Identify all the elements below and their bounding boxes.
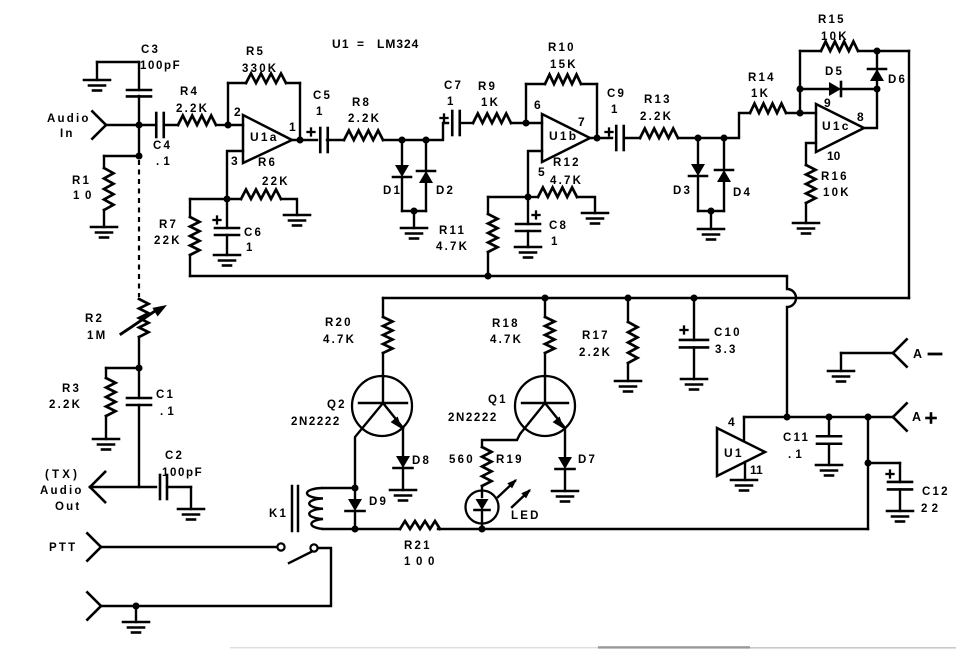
diode D6 — [876, 51, 878, 69]
svg-text:C1: C1 — [156, 389, 175, 401]
ground (C2) — [178, 508, 204, 511]
svg-text:22K: 22K — [154, 235, 182, 247]
svg-text:U1: U1 — [332, 37, 350, 51]
LED arrows — [498, 481, 515, 497]
ground (PTT return) — [123, 621, 149, 624]
svg-text:. 1: . 1 — [156, 156, 170, 168]
svg-text:R2: R2 — [85, 313, 104, 325]
svg-text:A: A — [913, 347, 922, 361]
svg-text:R15: R15 — [818, 14, 846, 26]
node D9 top — [352, 485, 359, 492]
node pin3/R6/R7/C6 junction — [224, 196, 231, 203]
svg-text:C6: C6 — [244, 227, 263, 239]
capacitor C7 — [441, 117, 448, 119]
svg-text:8: 8 — [857, 110, 864, 124]
ground (C12) — [887, 510, 913, 513]
switch lever — [289, 552, 311, 563]
svg-text:C10: C10 — [714, 327, 742, 339]
capacitor C4 — [155, 113, 158, 137]
wire reference bus upper — [190, 275, 787, 277]
resistor R9 — [473, 114, 511, 124]
wire A+ rail — [744, 416, 893, 418]
capacitor C11 — [828, 417, 830, 436]
svg-text:D8: D8 — [412, 455, 431, 467]
svg-text:330K: 330K — [242, 63, 278, 75]
resistor R11 — [488, 196, 528, 198]
svg-text:C2: C2 — [165, 450, 184, 462]
svg-text:R14: R14 — [748, 72, 776, 84]
svg-text:C12: C12 — [922, 486, 950, 498]
svg-text:100pF: 100pF — [140, 60, 181, 72]
node R11 on upper bus — [485, 273, 492, 280]
svg-text:D1: D1 — [383, 185, 402, 197]
svg-text:. 1: . 1 — [788, 449, 802, 461]
svg-text:1: 1 — [316, 106, 325, 118]
node pin5/R11/R12/C8 junction — [525, 194, 532, 201]
svg-text:LED: LED — [511, 510, 541, 522]
svg-text:K1: K1 — [269, 508, 288, 520]
resistor R13 — [640, 129, 678, 139]
dashed gain-control line — [138, 160, 140, 297]
node U1a output — [297, 137, 304, 144]
svg-text:1K: 1K — [751, 88, 770, 100]
wire audio out — [90, 486, 156, 488]
svg-text:6: 6 — [534, 98, 541, 112]
svg-text:PTT: PTT — [49, 542, 77, 554]
svg-text:5: 5 — [538, 165, 545, 179]
node D3 top — [695, 135, 702, 142]
connector Audio In — [92, 111, 106, 125]
svg-text:C4: C4 — [153, 140, 172, 152]
resistor R4 — [178, 116, 216, 126]
wire A- to ground — [841, 352, 893, 354]
capacitor C2 — [159, 475, 162, 499]
capacitor C3 — [138, 62, 140, 90]
wire D1-D2 bottoms — [402, 210, 426, 212]
wire C12 branch — [867, 417, 869, 529]
diode D4 — [723, 138, 725, 170]
svg-text:C3: C3 — [141, 44, 160, 56]
svg-text:. 1: . 1 — [160, 406, 174, 418]
svg-text:2.2K: 2.2K — [579, 347, 612, 359]
ground (D7) — [552, 490, 578, 493]
svg-text:R17: R17 — [582, 330, 610, 342]
ground (C11) — [816, 464, 842, 467]
resistor R15 feedback — [800, 50, 821, 52]
capacitor C12 — [887, 473, 894, 475]
svg-text:1 0 0: 1 0 0 — [404, 556, 436, 568]
svg-text:2: 2 — [234, 105, 241, 119]
svg-text:R12: R12 — [553, 157, 581, 169]
ground (R17) — [615, 380, 641, 383]
node D1/D2 ground junction — [411, 208, 418, 215]
connector TX Audio Out — [90, 472, 105, 487]
svg-text:10K: 10K — [821, 31, 849, 43]
wire to C7 — [426, 123, 448, 140]
wire top to right drop — [877, 50, 909, 52]
node C10 top — [691, 295, 698, 302]
connector ground return — [87, 592, 101, 606]
wire PTT to switch — [101, 546, 277, 548]
capacitor C6 — [214, 219, 221, 221]
wire output bus bottom — [355, 528, 400, 530]
svg-text:R13: R13 — [644, 94, 672, 106]
resistor R21 — [400, 521, 440, 529]
ground (A-) — [828, 370, 854, 373]
svg-text:R6: R6 — [258, 157, 277, 169]
wire switch return — [101, 548, 331, 606]
svg-text:7: 7 — [578, 115, 585, 129]
transistor Q1 — [515, 376, 575, 436]
svg-text:2.2K: 2.2K — [176, 103, 209, 115]
svg-text:R18: R18 — [492, 318, 520, 330]
svg-text:1K: 1K — [481, 97, 500, 109]
svg-text:R20: R20 — [325, 317, 353, 329]
resistor R16 — [806, 165, 816, 203]
power symbol U1 pins 4 and 11 — [743, 417, 745, 441]
svg-text:D7: D7 — [578, 454, 597, 466]
wire D3-D4 bottoms — [698, 210, 724, 212]
diode D7 — [558, 457, 572, 469]
svg-text:D9: D9 — [369, 496, 388, 508]
resistor R1 — [104, 155, 139, 157]
capacitor C8 — [533, 214, 540, 216]
svg-text:2.2K: 2.2K — [348, 113, 381, 125]
svg-text:=: = — [357, 37, 364, 51]
op-amp U1c — [816, 104, 864, 152]
capacitor C9 — [606, 131, 613, 133]
LED indicator — [466, 491, 499, 524]
resistor R7 — [190, 198, 227, 200]
wire right vertical drop to control bus — [908, 51, 910, 298]
resistor R8 — [344, 131, 383, 141]
wire to R14 — [724, 113, 750, 138]
transistor Q2 — [352, 376, 412, 436]
svg-text:C5: C5 — [313, 90, 332, 102]
svg-text:10K: 10K — [823, 187, 851, 199]
svg-text:4.7K: 4.7K — [490, 334, 523, 346]
svg-text:C8: C8 — [549, 220, 568, 232]
svg-text:D5: D5 — [825, 66, 844, 78]
resistor R14 — [750, 104, 786, 114]
svg-text:Audio: Audio — [47, 113, 91, 125]
diode D5 — [800, 88, 829, 90]
svg-text:R16: R16 — [821, 171, 849, 183]
ground (C10) — [681, 378, 707, 381]
svg-text:U1a: U1a — [250, 130, 279, 144]
svg-text:1 0: 1 0 — [73, 190, 93, 202]
resistor R20 — [383, 317, 393, 353]
svg-text:R7: R7 — [159, 219, 178, 231]
ground (R6) — [284, 214, 310, 217]
svg-text:2N2222: 2N2222 — [448, 412, 498, 424]
ground (R1) — [91, 226, 117, 229]
node R15/D6 top junction — [874, 48, 881, 55]
wire control bus — [383, 297, 909, 299]
page edge artifact — [230, 647, 600, 648]
svg-text:C11: C11 — [783, 432, 810, 444]
capacitor C10 — [681, 329, 688, 331]
node R18 top — [542, 295, 549, 302]
capacitor C5 — [308, 131, 315, 133]
wire pin5 — [528, 151, 542, 197]
diode D9 — [354, 488, 356, 499]
connector A+ — [893, 403, 907, 417]
node D4 top — [721, 135, 728, 142]
svg-text:22K: 22K — [262, 176, 290, 188]
wire R4 to pin2 — [216, 124, 228, 126]
svg-text:2N2222: 2N2222 — [291, 416, 341, 428]
svg-text:4: 4 — [728, 415, 735, 429]
svg-text:Out: Out — [55, 501, 81, 513]
svg-text:U1: U1 — [724, 446, 744, 460]
svg-text:1: 1 — [551, 236, 560, 248]
svg-text:R21: R21 — [404, 540, 432, 552]
diode D1 — [401, 140, 403, 165]
svg-text:A: A — [912, 410, 921, 424]
svg-text:10: 10 — [827, 149, 841, 163]
node R3/C1 junction — [136, 365, 143, 372]
svg-text:3: 3 — [231, 154, 238, 168]
svg-text:1: 1 — [289, 120, 296, 134]
node C12 branch — [865, 414, 872, 421]
wire U1c output — [864, 89, 877, 128]
wire upper bus drop with hop over control bus — [787, 276, 796, 417]
svg-text:11: 11 — [750, 463, 763, 477]
diode D8 — [396, 456, 410, 468]
diode D3 — [697, 138, 699, 164]
resistor R3 — [106, 367, 139, 369]
svg-text:15K: 15K — [550, 59, 578, 71]
resistor R17 — [627, 298, 629, 322]
svg-text:R3: R3 — [62, 383, 81, 395]
wire pin3 — [227, 151, 243, 199]
svg-text:C9: C9 — [607, 88, 626, 100]
ground (U1 pin11) — [731, 479, 757, 482]
wire left feedback riser — [799, 51, 801, 113]
ground (C8) — [515, 246, 541, 249]
svg-text:1: 1 — [611, 104, 620, 116]
svg-text:560: 560 — [449, 454, 475, 466]
wire bus to C12 riser — [438, 528, 868, 530]
node C11 top — [826, 414, 833, 421]
wire Audio In to node — [106, 124, 139, 126]
node R17 top — [625, 295, 632, 302]
svg-text:U1b: U1b — [549, 129, 578, 143]
svg-text:1: 1 — [447, 96, 456, 108]
resistor R5 feedback — [227, 83, 229, 125]
svg-text:R19: R19 — [496, 454, 524, 466]
svg-text:D6: D6 — [888, 74, 907, 86]
relay contact circle 1 — [277, 543, 284, 550]
node D2 top — [423, 137, 430, 144]
svg-text:2.2K: 2.2K — [49, 399, 82, 411]
node R1 junction — [136, 153, 143, 160]
svg-text:R1: R1 — [72, 175, 91, 187]
resistor R19 — [482, 447, 492, 486]
svg-text:4.7K: 4.7K — [550, 175, 583, 187]
svg-text:U1c: U1c — [822, 119, 851, 133]
node D5 left — [797, 86, 804, 93]
op-amp U1a — [243, 115, 292, 163]
svg-text:LM324: LM324 — [377, 37, 419, 51]
svg-text:In: In — [60, 128, 75, 140]
resistor R18 — [544, 298, 546, 317]
node pin2 junction — [225, 122, 232, 129]
svg-text:Audio: Audio — [40, 485, 84, 497]
svg-text:R11: R11 — [439, 225, 466, 237]
resistor R12 — [528, 196, 538, 198]
svg-text:3.3: 3.3 — [715, 344, 738, 356]
node D3/D4 ground junction — [708, 208, 715, 215]
svg-text:100pF: 100pF — [162, 467, 203, 479]
node D5/D6 right junction — [874, 86, 881, 93]
wire pin10 — [806, 143, 816, 165]
node U1b output — [594, 135, 601, 142]
svg-text:R4: R4 — [180, 86, 199, 98]
svg-text:1M: 1M — [87, 330, 107, 342]
wire ground-to-C3 top — [97, 61, 139, 63]
diode D2 — [425, 140, 427, 171]
node LED on output bus — [479, 526, 486, 533]
node hop-wire on A+ rail — [784, 414, 791, 421]
svg-text:R9: R9 — [478, 81, 497, 93]
svg-text:D3: D3 — [673, 185, 692, 197]
connector PTT — [87, 533, 101, 547]
svg-text:2.2K: 2.2K — [640, 111, 673, 123]
ground (C3 input ground) — [84, 79, 110, 82]
node ground-return junction — [133, 603, 140, 610]
ground (D1 D2) — [401, 227, 427, 230]
ground (R16) — [793, 222, 819, 225]
node pin9 junction — [797, 110, 804, 117]
ground (D3 D4) — [698, 228, 724, 231]
node input junction — [136, 122, 143, 129]
node D9 bottom — [352, 526, 359, 533]
ground (C6) — [214, 254, 240, 257]
op-amp U1b — [542, 114, 590, 162]
svg-text:4.7K: 4.7K — [436, 241, 469, 253]
svg-text:4.7K: 4.7K — [323, 334, 356, 346]
svg-text:R5: R5 — [246, 46, 265, 58]
ground (R3) — [93, 438, 119, 441]
resistor R10 feedback — [525, 84, 527, 123]
svg-text:(TX): (TX) — [45, 469, 80, 481]
svg-text:R10: R10 — [548, 42, 576, 54]
svg-text:2 2: 2 2 — [921, 503, 939, 515]
ground (D8) — [390, 489, 416, 492]
node pin6 junction — [523, 120, 530, 127]
svg-text:R8: R8 — [352, 97, 371, 109]
svg-text:D4: D4 — [733, 187, 752, 199]
svg-text:1: 1 — [246, 242, 255, 254]
relay contact circle 2 — [310, 544, 317, 551]
resistor R6 — [227, 198, 241, 200]
svg-text:C7: C7 — [444, 80, 463, 92]
node D1 top — [399, 137, 406, 144]
svg-text:D2: D2 — [436, 185, 455, 197]
svg-text:Q2: Q2 — [327, 399, 347, 411]
connector A- — [893, 339, 907, 353]
ground (R12) — [582, 212, 608, 215]
capacitor C1 — [138, 368, 140, 398]
potentiometer R2 — [139, 299, 149, 337]
svg-text:Q1: Q1 — [488, 394, 508, 406]
